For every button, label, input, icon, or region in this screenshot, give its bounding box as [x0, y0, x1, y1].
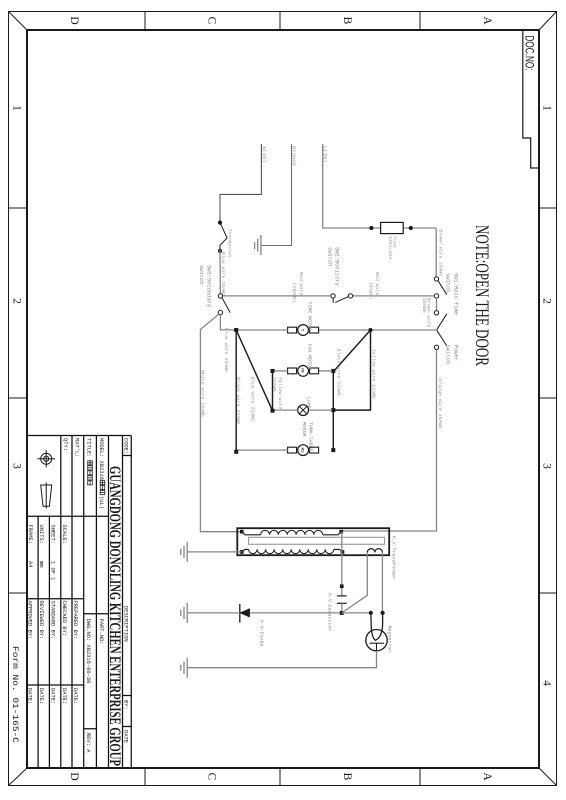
wire HV node: [341, 532, 343, 596]
zone numbers top: [541, 105, 553, 686]
svg-text:DATE:: DATE:: [72, 688, 78, 704]
ground symbol magnetron: [181, 658, 187, 678]
capacitor C1 H.V.: [327, 593, 347, 631]
svg-text:H.V.Capacitor: H.V.Capacitor: [327, 593, 333, 631]
svg-text:Blue wire 18AWG: Blue wire 18AWG: [220, 252, 226, 296]
motor M3 turn-table motor: [236, 422, 318, 456]
svg-text:DATE:: DATE:: [49, 688, 55, 704]
svg-text:DATE:: DATE:: [27, 688, 33, 704]
zone dividers right strip: [145, 768, 420, 786]
svg-text:Black wire 22AWG: Black wire 22AWG: [235, 377, 241, 424]
svg-text:PART.NO:: PART.NO:: [98, 619, 104, 645]
magnetron V1: [366, 611, 393, 652]
wire blue diagonal: [236, 330, 272, 411]
svg-text:A4: A4: [27, 561, 33, 567]
wire stub junction to magnetron filament: [342, 612, 369, 614]
transformer secondary winding: [242, 549, 343, 553]
wire SW1 pivot drop to time motor: [319, 329, 437, 331]
svg-text:3: 3: [541, 463, 553, 469]
wire SW3 to transformer primary return: [200, 314, 239, 532]
svg-text:SW3:Secondary: SW3:Secondary: [206, 265, 212, 308]
svg-text:B: B: [341, 17, 353, 25]
ground symbol transformer: [181, 542, 187, 562]
svg-text:FRAME:: FRAME:: [27, 525, 33, 544]
lamp: [273, 397, 333, 416]
svg-text:A: A: [481, 772, 493, 781]
fuse F1 125v/15A: [381, 222, 404, 233]
svg-text:T: T: [299, 329, 305, 332]
svg-text:switch: switch: [198, 265, 204, 284]
qty row: [61, 438, 68, 704]
svg-text:APPROVED BY:: APPROVED BY:: [27, 601, 33, 640]
wire secondary bottom to ground: [187, 551, 241, 553]
svg-text:SCALE:: SCALE:: [61, 525, 67, 544]
wire ground input feed: [262, 144, 292, 246]
svg-text:18AWG: 18AWG: [421, 298, 427, 313]
wire filament upper to magnetron: [381, 552, 383, 613]
svg-text:CODE:: CODE:: [123, 438, 129, 454]
svg-text:Black wire 22AWG: Black wire 22AWG: [335, 349, 341, 396]
svg-text:PREPARED BY:: PREPARED BY:: [72, 601, 78, 640]
svg-text:Red wire: Red wire: [374, 272, 380, 296]
svg-text:TURN-TABLE: TURN-TABLE: [308, 422, 314, 451]
svg-text:2: 2: [11, 298, 23, 304]
transformer secondary terminal dots: [341, 550, 345, 554]
svg-text:22AWG: 22AWG: [271, 377, 277, 392]
svg-text:UNITS:: UNITS:: [38, 525, 44, 544]
switch SW3 secondary: [198, 265, 230, 315]
svg-text:White wire 18AWG: White wire 18AWG: [200, 370, 206, 417]
zone letters right: [68, 772, 493, 781]
svg-text:TIME MOTOR: TIME MOTOR: [307, 302, 313, 331]
svg-text:1: 1: [11, 105, 23, 111]
switch time contact: [434, 311, 438, 315]
svg-text:Brown wire 18AWG: Brown wire 18AWG: [438, 229, 444, 276]
svg-text:Blue wire 22AWG: Blue wire 22AWG: [249, 377, 255, 421]
svg-text:(8AWG): (8AWG): [367, 282, 373, 300]
wire mid return bus: [272, 371, 274, 411]
wire SW2 to N node: [223, 295, 331, 297]
corner diagonal top-left: [539, 12, 557, 31]
svg-text:Thermostat: Thermostat: [227, 229, 233, 258]
svg-text:3: 3: [11, 463, 23, 469]
svg-text:D: D: [68, 772, 80, 780]
wire brown bus top: [435, 228, 437, 277]
svg-text:4: 4: [541, 680, 553, 686]
svg-text:Yellow wire 22AWG: Yellow wire 22AWG: [371, 349, 377, 399]
zone dividers top strip: [539, 208, 557, 593]
svg-text:(18AWG): (18AWG): [291, 283, 297, 304]
svg-text:FAN MOTOR: FAN MOTOR: [307, 344, 313, 370]
svg-text:B: B: [341, 773, 353, 781]
svg-text:SW2:Monitory: SW2:Monitory: [334, 247, 340, 287]
svg-text:TITLE:: TITLE:: [86, 438, 92, 457]
svg-text:MS: MS: [299, 448, 303, 454]
transformer primary terminal dots: [339, 530, 343, 534]
svg-text:DATE:: DATE:: [61, 688, 67, 704]
ground symbol diode: [181, 603, 187, 623]
svg-text:1 OF 1: 1 OF 1: [50, 561, 56, 580]
capacitor junction dots: [340, 584, 344, 588]
zone dividers bottom strip: [9, 208, 28, 593]
svg-text:H.V.Transformer: H.V.Transformer: [391, 536, 397, 580]
projection symbol cone: [41, 483, 52, 509]
wire thermostat to SW3: [219, 250, 221, 294]
DOC.NO box: [523, 30, 539, 168]
svg-text:Magnetron: Magnetron: [387, 626, 393, 652]
svg-text:switch: switch: [445, 345, 451, 364]
title row: [85, 438, 92, 753]
title block row1 texts: [123, 438, 129, 743]
svg-text:DWG.NO: XB2316-00-30: DWG.NO: XB2316-00-30: [85, 619, 91, 684]
matl row: [72, 438, 79, 704]
svg-text:Red wire: Red wire: [298, 272, 304, 296]
svg-text:CHECKED BY:: CHECKED BY:: [61, 601, 67, 637]
svg-text:DATE:: DATE:: [38, 688, 44, 704]
zone numbers bottom: [11, 105, 23, 469]
svg-text:125v/15A: 125v/15A: [387, 236, 393, 260]
svg-text:SW1:Main Time: SW1:Main Time: [453, 273, 459, 315]
wire bus between SW1 and time switch: [436, 298, 438, 311]
svg-text:Blue wire 22AWG: Blue wire 22AWG: [223, 328, 229, 372]
wire magnetron anode to ground: [187, 651, 376, 668]
svg-text:switch: switch: [327, 247, 333, 266]
wire top motor bus: [332, 371, 334, 450]
switch SW1 main time: [434, 273, 458, 315]
approval rows: [27, 525, 56, 705]
svg-text:MODEL: XB2316: MODEL: XB2316: [98, 438, 104, 480]
wire black diagonal to fan motor: [334, 330, 371, 371]
transformer core bar: [249, 537, 385, 544]
transformer T1 box: [237, 528, 389, 555]
wire L feed: [323, 144, 437, 228]
wire filament lower with diode tap: [342, 552, 368, 613]
junction dots mid bus: [271, 369, 275, 373]
model row: [98, 438, 105, 644]
fuse terminal dots: [409, 226, 413, 230]
switch SW2 monitory: [327, 247, 353, 303]
svg-text:MAT'L:: MAT'L:: [74, 438, 80, 457]
switch power blade: [437, 330, 447, 346]
wire bottom return bus: [235, 330, 237, 452]
title block grid lines: [27, 436, 131, 769]
svg-text:C: C: [206, 773, 218, 781]
wire red drop SW1 to SW2: [353, 295, 435, 297]
svg-text:C: C: [206, 17, 218, 25]
junction dots bottom bus: [234, 328, 238, 332]
transformer filament winding: [367, 549, 382, 553]
svg-text:MF: MF: [299, 368, 303, 374]
svg-text:switch: switch: [445, 273, 451, 292]
svg-text:mm: mm: [38, 561, 44, 567]
corner diagonal top-right: [539, 768, 557, 786]
motor M2 fan motor: [273, 344, 333, 377]
zone letters left: [68, 16, 493, 25]
svg-text:STANDARD BY:: STANDARD BY:: [49, 601, 55, 640]
junction dots top motor bus: [331, 369, 335, 373]
corner diagonal bottom-right: [9, 768, 28, 786]
svg-text:SHEET:: SHEET:: [50, 525, 56, 544]
svg-text:GUANGDONG DONGLING KITCHEN ENT: GUANGDONG DONGLING KITCHEN ENTERPRISE GR…: [106, 466, 123, 766]
svg-text:H.V.Diode: H.V.Diode: [259, 620, 265, 646]
diode D1 H.V.: [187, 604, 339, 646]
svg-text:QTY:: QTY:: [62, 438, 68, 451]
wire SW3 to bottom bus junction: [220, 315, 234, 330]
projection symbol circle: [37, 450, 55, 468]
svg-text:REV: A: REV: A: [85, 733, 91, 753]
svg-text:MOTOR: MOTOR: [301, 422, 307, 437]
ground symbol input: [255, 235, 261, 255]
svg-text:1: 1: [541, 105, 553, 111]
transformer primary winding: [242, 530, 342, 534]
svg-text:A: A: [481, 16, 493, 25]
motor M1 time motor: [288, 302, 319, 336]
svg-text:DOC.NO:: DOC.NO:: [522, 36, 534, 71]
svg-text:Orange wire 18AWG: Orange wire 18AWG: [437, 379, 443, 429]
junction dot yellow node: [368, 328, 372, 332]
svg-text:Yellow wire: Yellow wire: [277, 377, 283, 409]
svg-text:2: 2: [541, 298, 553, 304]
svg-text:Form No. 01-165-C: Form No. 01-165-C: [10, 646, 19, 743]
wire yellow bus to lamp drop: [335, 330, 371, 410]
wire N feed: [220, 144, 261, 221]
svg-text:REVIEWED BY:: REVIEWED BY:: [38, 601, 44, 640]
svg-text:Power: Power: [453, 345, 459, 361]
svg-text:(UL): (UL): [98, 496, 104, 509]
svg-text:NOTE:OPEN THE DOOR: NOTE:OPEN THE DOOR: [471, 225, 491, 366]
zone dividers left strip: [145, 12, 420, 31]
svg-text:D: D: [68, 16, 80, 24]
wire time motor bottom lead: [236, 329, 288, 331]
corner diagonal bottom-left: [9, 12, 28, 31]
wire orange bus to transformer: [342, 350, 437, 532]
thermostat: [218, 221, 233, 258]
svg-text:LAMP: LAMP: [306, 397, 312, 409]
